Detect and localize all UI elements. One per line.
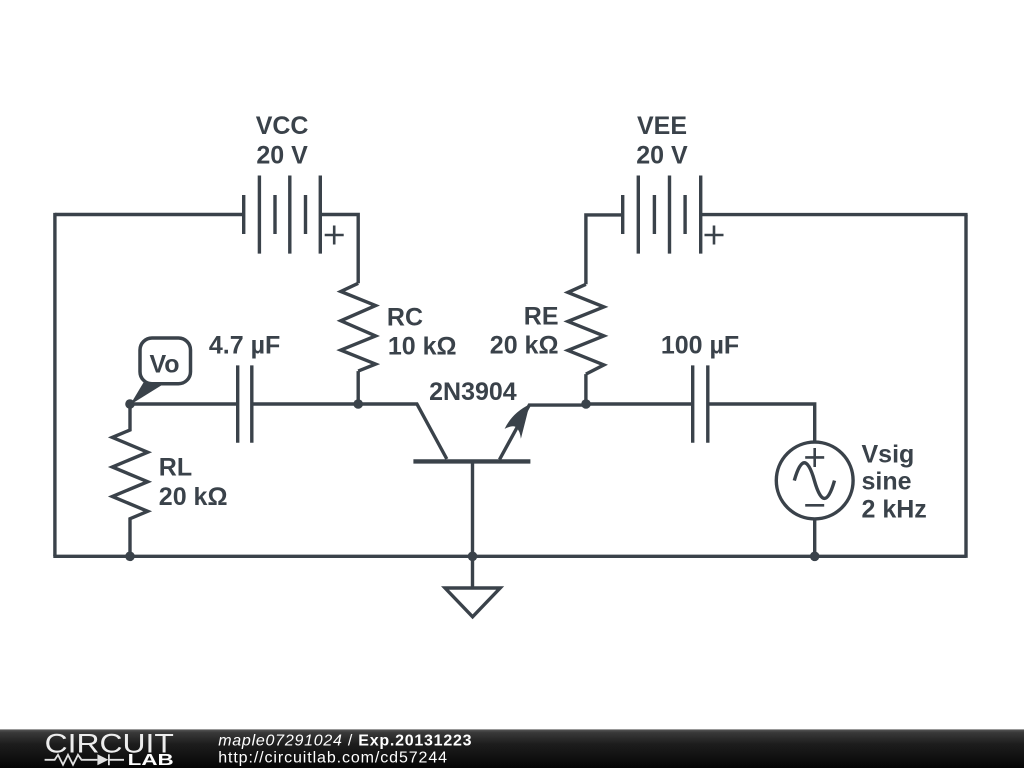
node label Vo callout box [130,338,190,405]
capacitor C1 4.7uF plates [238,365,252,442]
svg-text:10 kΩ: 10 kΩ [388,332,457,360]
source Vsig circle [776,442,853,519]
svg-text:sine: sine [862,468,912,496]
svg-text:Vsig: Vsig [862,441,915,469]
source Vsig sine wave [794,463,834,499]
svg-text:VEE: VEE [637,112,687,140]
node Vsig-bottom junction [810,552,820,562]
resistor RL zigzag [112,404,147,556]
battery VCC long plates [259,176,320,254]
wire Vo node to C1 left plate [130,402,236,405]
source Vsig plus sign [805,448,824,467]
transistor Q1 emitter arrow [505,404,530,438]
wire top-left horizontal [55,213,244,216]
svg-text:4.7 µF: 4.7 µF [209,331,280,359]
resistor RC zigzag [341,283,376,371]
svg-text:2 kHz: 2 kHz [862,496,927,524]
capacitor C2 100uF plates [693,365,708,442]
svg-text:RL: RL [159,453,192,481]
svg-text:20 V: 20 V [256,142,308,170]
transistor Q1 emitter diagonal [500,405,587,460]
svg-text:100 µF: 100 µF [661,331,739,359]
wire C1 right plate to RC node to collector [253,404,446,459]
svg-text:LAB: LAB [128,752,174,768]
wire left vertical [53,213,56,556]
source Vsig minus sign [805,504,824,507]
wire base to ground rail [471,461,474,588]
wire VEE positive to right [701,213,968,216]
wire C2 right plate to Vsig top [709,404,814,442]
wire Vsig bottom [813,518,816,556]
node RE-emitter junction [581,399,591,409]
battery VCC plus sign [325,226,344,245]
svg-text:RE: RE [524,303,559,331]
resistor RE zigzag [568,284,604,374]
svg-text:20 kΩ: 20 kΩ [490,332,559,360]
svg-text:20 V: 20 V [636,142,688,170]
battery VCC short plates [244,195,306,234]
ground symbol triangle [445,588,500,617]
svg-text:maple07291024 / Exp.20131223: maple07291024 / Exp.20131223 [218,732,472,749]
svg-text:RC: RC [387,303,423,331]
wire VEE negative to RE top [586,215,623,284]
svg-text:20 kΩ: 20 kΩ [159,483,228,511]
svg-text:Vo: Vo [149,350,179,378]
wire RE node to C2 left plate [586,402,691,405]
CircuitLab logo resistor-diode glyph [45,754,124,765]
node junction dots [125,399,819,561]
wire RC bottom [357,371,360,404]
node RL-bottom junction [125,552,135,562]
node RC-collector junction [353,399,363,409]
battery VEE short plates [623,195,685,234]
node base-ground junction [468,552,478,562]
wire right vertical [964,215,967,558]
battery VEE plus sign [705,226,724,245]
node Vo junction [125,399,135,409]
wire bottom horizontal [53,555,966,558]
svg-text:2N3904: 2N3904 [429,378,517,406]
wire VCC positive to RC top [320,215,358,284]
footer bar [0,729,1024,768]
battery VEE long plates [638,176,700,254]
transistor Q1 base bar [413,459,530,463]
wire RE bottom [584,374,587,404]
svg-text:http://circuitlab.com/cd57244: http://circuitlab.com/cd57244 [218,750,448,767]
svg-text:VCC: VCC [256,112,309,140]
